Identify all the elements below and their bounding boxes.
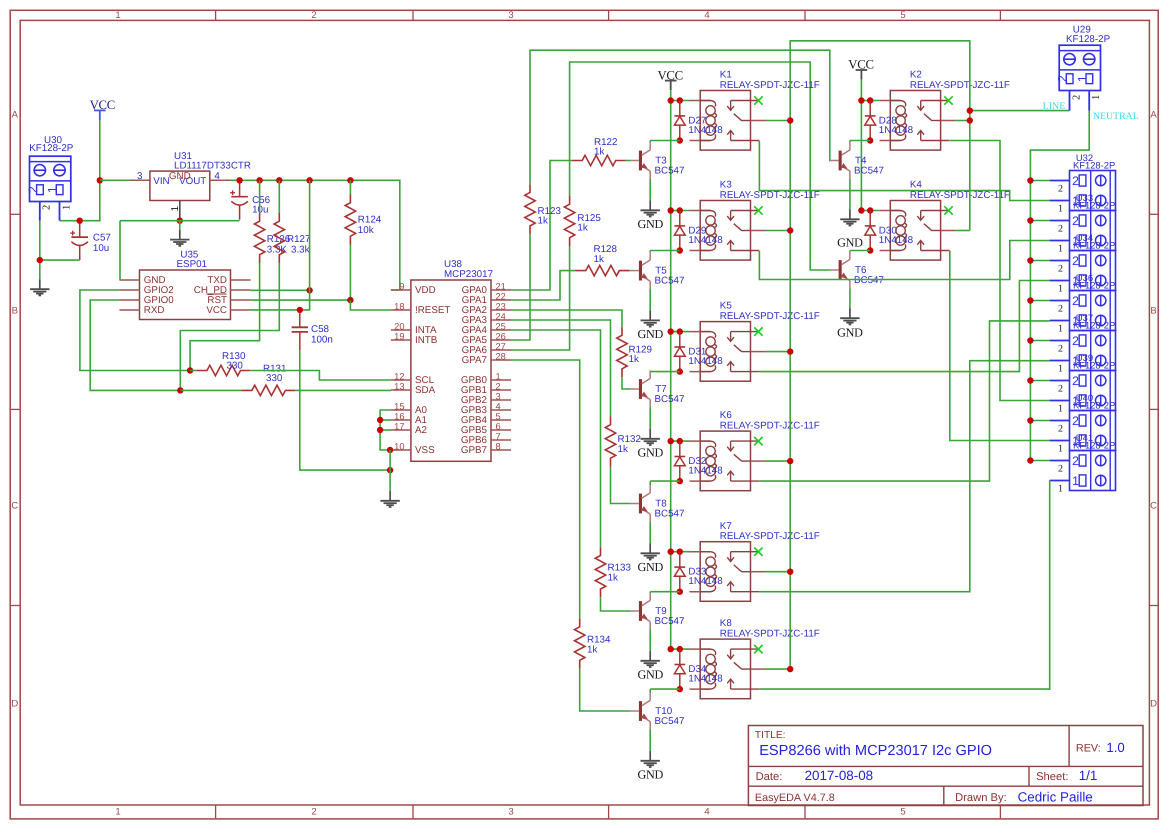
transistor T3 BC547 <box>631 142 685 179</box>
U38 pin 21 GPA0 <box>462 281 511 296</box>
svg-text:C57: C57 <box>93 232 111 243</box>
svg-text:1k: 1k <box>538 216 548 227</box>
svg-text:2: 2 <box>42 205 53 210</box>
wire common K1 <box>766 120 791 122</box>
node NEUTRAL U40 <box>1027 417 1033 423</box>
U39 pin 2 <box>1050 381 1070 395</box>
U31 pin 1 GND <box>170 201 181 221</box>
svg-text:25: 25 <box>496 321 506 331</box>
svg-text:KF128-2P: KF128-2P <box>1066 34 1111 45</box>
wire K4 output to U40.1 <box>950 251 1050 441</box>
svg-text:RELAY-SPDT-JZC-11F: RELAY-SPDT-JZC-11F <box>720 190 820 201</box>
no-connect X K3 <box>754 206 762 214</box>
node diode bottom K2 <box>867 137 873 143</box>
U38 pin 19 INTB <box>391 331 438 346</box>
U33 pin 2 <box>1050 221 1070 235</box>
node diode top K7 <box>677 549 683 555</box>
wire K7 output to U37.1 <box>759 361 1049 592</box>
svg-text:2: 2 <box>1072 214 1079 228</box>
svg-text:4: 4 <box>496 401 501 411</box>
svg-text:GND: GND <box>637 667 663 681</box>
node diode top K5 <box>677 328 683 334</box>
svg-text:VDD: VDD <box>415 285 436 296</box>
wire coil top K6 <box>671 440 690 442</box>
svg-text:24: 24 <box>496 311 506 321</box>
node NEUTRAL U36 <box>1027 297 1033 303</box>
svg-text:1: 1 <box>1058 483 1063 494</box>
ground T7 <box>637 429 663 459</box>
node diode bottom K7 <box>677 589 683 595</box>
U38 pin 20 INTA <box>391 321 437 336</box>
wire NEUTRAL U39 <box>1030 380 1049 382</box>
svg-text:2: 2 <box>1056 75 1070 82</box>
svg-text:2: 2 <box>1072 174 1079 188</box>
svg-text:19: 19 <box>394 331 404 341</box>
svg-text:1k: 1k <box>618 444 628 455</box>
wire collector T8 <box>650 480 680 482</box>
transistor T8 BC547 <box>631 485 685 522</box>
svg-text:2: 2 <box>1071 95 1082 100</box>
wire GPA2 net <box>511 310 622 327</box>
U38 pin 22 GPA1 <box>462 291 511 306</box>
svg-text:1k: 1k <box>608 572 618 583</box>
node diode top K1 <box>677 97 683 103</box>
svg-text:BC547: BC547 <box>655 508 685 519</box>
svg-text:GND: GND <box>169 171 191 182</box>
relay K2 RELAY-SPDT-JZC-11F <box>880 70 1010 150</box>
svg-text:1: 1 <box>1058 403 1063 414</box>
svg-text:GPB7: GPB7 <box>461 445 487 456</box>
svg-text:RXD: RXD <box>144 305 165 316</box>
wire C58 bottom to GND <box>300 350 390 470</box>
resistor R126 <box>254 213 290 263</box>
node RST-R124 <box>347 297 353 303</box>
node A1 <box>377 417 383 423</box>
power flag VCC (mid) <box>657 69 682 91</box>
svg-text:3.3k: 3.3k <box>291 245 310 256</box>
wire emitter down T6 <box>849 289 851 309</box>
wire emitter down T4 <box>849 179 851 210</box>
svg-text:RELAY-SPDT-JZC-11F: RELAY-SPDT-JZC-11F <box>720 420 820 431</box>
svg-text:1: 1 <box>1075 75 1089 82</box>
svg-text:1.0: 1.0 <box>1106 740 1124 755</box>
transistor T6 BC547 <box>830 252 884 289</box>
U38 pin 9 VDD <box>391 281 436 296</box>
U34 pin 2 <box>1050 261 1070 275</box>
node U31 GND <box>177 218 183 224</box>
U35 pin RXD <box>120 309 140 311</box>
svg-text:2017-08-08: 2017-08-08 <box>805 768 874 783</box>
node diode bottom K4 <box>867 247 873 253</box>
U38 pin 1 GPB0 <box>461 371 511 386</box>
wire R129 to T7 base <box>622 377 631 389</box>
wire collector up T8 <box>649 481 651 485</box>
wire GPA7 net <box>511 360 580 619</box>
capacitor C58 <box>292 310 333 350</box>
svg-text:R127: R127 <box>287 234 310 245</box>
U38 pin 25 GPA4 <box>462 321 511 336</box>
svg-text:1N4148: 1N4148 <box>688 674 723 685</box>
svg-text:RELAY-SPDT-JZC-11F: RELAY-SPDT-JZC-11F <box>910 190 1010 201</box>
svg-text:1N4148: 1N4148 <box>688 356 723 367</box>
diode D28 1N4148 <box>865 101 914 141</box>
svg-text:3: 3 <box>137 171 143 182</box>
U35 pin RST <box>231 299 251 301</box>
wire coil top K7 <box>671 551 690 553</box>
wire GND U30.2 down <box>39 221 41 280</box>
U38 pin 28 GPA7 <box>462 351 511 366</box>
U32 pin 2 <box>1050 181 1070 195</box>
connector U37 KF128-2P <box>1070 312 1116 371</box>
svg-text:1: 1 <box>496 371 501 381</box>
wire LINE bus <box>790 41 970 669</box>
wire emitter down T9 <box>649 630 651 652</box>
U30 pin 2 <box>40 202 53 221</box>
svg-text:RELAY-SPDT-JZC-11F: RELAY-SPDT-JZC-11F <box>720 80 820 91</box>
resistor R124 <box>345 195 382 245</box>
svg-text:1: 1 <box>170 206 181 211</box>
wire RST jog to MCP <box>350 300 391 310</box>
svg-text:KF128-2P: KF128-2P <box>1073 440 1115 451</box>
svg-text:KF128-2P: KF128-2P <box>1073 320 1115 331</box>
svg-text:1N4148: 1N4148 <box>688 576 723 587</box>
wire R126 top <box>259 180 261 213</box>
node diode top K8 <box>677 646 683 652</box>
no-connect X K6 <box>754 437 762 445</box>
ground T8 <box>637 544 663 574</box>
U36 pin 2 <box>1050 301 1070 315</box>
node R131 left <box>177 387 183 393</box>
U38 pin 26 GPA5 <box>462 331 511 346</box>
wire R133 to T9 base <box>601 597 631 611</box>
U38 pin 13 SDA <box>391 381 436 396</box>
U38 pin 4 GPB3 <box>461 401 511 416</box>
svg-text:2: 2 <box>1072 414 1079 428</box>
svg-text:2: 2 <box>1058 463 1063 474</box>
wire NEUTRAL U41 <box>1030 460 1049 462</box>
wire collector T6 <box>850 250 870 252</box>
node CH_PD <box>306 287 312 293</box>
wire ESP GPIO0 loop <box>90 300 180 390</box>
node diode bottom K6 <box>677 478 683 484</box>
svg-text:BC547: BC547 <box>655 616 685 627</box>
no-connect X K7 <box>754 548 762 556</box>
svg-text:BC547: BC547 <box>655 165 685 176</box>
svg-text:13: 13 <box>394 381 404 391</box>
svg-text:A2: A2 <box>415 425 427 436</box>
svg-text:1/1: 1/1 <box>1079 768 1098 783</box>
wire VCC to U31 VIN <box>100 179 130 181</box>
transistor T4 BC547 <box>830 142 884 179</box>
svg-text:2: 2 <box>1072 374 1079 388</box>
node VCC K2 <box>858 97 864 103</box>
node LINE K6 <box>787 458 793 464</box>
svg-text:1: 1 <box>115 806 120 817</box>
svg-text:10u: 10u <box>93 243 109 254</box>
svg-text:KF128-2P: KF128-2P <box>1073 360 1115 371</box>
node LINE K3 <box>787 227 793 233</box>
wire VOUT rail <box>230 180 400 290</box>
power flag VCC (left) <box>90 98 115 120</box>
svg-text:B: B <box>1150 306 1156 317</box>
svg-text:28: 28 <box>496 351 506 361</box>
svg-text:3.3K: 3.3K <box>267 245 288 256</box>
U35 pin GND <box>120 279 140 281</box>
wire R131 left lead <box>180 389 241 391</box>
wire GPA4 net <box>511 330 601 547</box>
U35 pin CH_PD <box>231 289 251 291</box>
U38 pin 5 GPB4 <box>461 411 511 426</box>
svg-text:10: 10 <box>394 441 404 451</box>
wire VCC vertical to U30.1 <box>60 120 100 221</box>
node LINE K2 <box>967 117 973 123</box>
node VCC K3 <box>668 207 674 213</box>
relay K7 RELAY-SPDT-JZC-11F <box>690 521 820 601</box>
U35 pin TXD <box>231 279 251 281</box>
wire VCC rail mid <box>670 90 672 649</box>
node R130 left <box>187 367 193 373</box>
U29 pin 2 <box>1070 91 1083 111</box>
svg-text:TITLE:: TITLE: <box>755 730 786 741</box>
diode D30 1N4148 <box>865 211 914 251</box>
U32 pin 1 <box>1050 201 1070 215</box>
U35 pin GPIO0 <box>120 299 140 301</box>
wire common K7 <box>766 571 791 573</box>
svg-text:C: C <box>1150 501 1157 512</box>
diode D34 1N4148 <box>674 649 723 689</box>
ground T4 <box>837 210 863 250</box>
wire A0 chain <box>380 410 391 450</box>
svg-text:D: D <box>11 699 18 710</box>
connector U36 KF128-2P <box>1070 272 1116 331</box>
U29 pin 1 <box>1089 91 1102 111</box>
module U35 ESP01 <box>140 250 231 320</box>
relay K6 RELAY-SPDT-JZC-11F <box>690 410 820 490</box>
svg-text:GND: GND <box>637 767 663 781</box>
node LINE K1 <box>787 117 793 123</box>
svg-text:GND: GND <box>637 445 663 459</box>
node C58 top <box>297 307 303 313</box>
wire R128 to T5 base <box>629 270 631 272</box>
wire common K5 <box>766 351 791 353</box>
node NEUTRAL U33 <box>1027 217 1033 223</box>
svg-text:1: 1 <box>115 10 120 21</box>
svg-text:2: 2 <box>26 186 40 193</box>
wire K2 output to U39.1 <box>950 141 1050 401</box>
svg-text:2: 2 <box>1072 294 1079 308</box>
U31 pin 3 VIN <box>129 171 150 182</box>
wire ESP GPIO2 loop <box>80 290 190 371</box>
svg-text:SDA: SDA <box>415 385 436 396</box>
svg-text:1k: 1k <box>577 223 587 234</box>
node VCC K6 <box>668 438 674 444</box>
U38 pin 24 GPA3 <box>462 311 511 326</box>
wire common K8 <box>766 668 791 670</box>
svg-text:GND: GND <box>637 327 663 341</box>
U35 pin VCC <box>231 309 251 311</box>
connector U40 KF128-2P <box>1070 392 1116 451</box>
node diode top K2 <box>867 97 873 103</box>
wire collector T7 <box>650 371 680 373</box>
svg-text:1: 1 <box>1058 243 1063 254</box>
wire ESP CH_PD <box>251 289 310 291</box>
wire collector up T3 <box>649 141 651 143</box>
svg-text:GND: GND <box>637 217 663 231</box>
U35 pin GPIO2 <box>120 289 140 291</box>
svg-text:6: 6 <box>496 421 501 431</box>
diode D29 1N4148 <box>674 211 723 251</box>
svg-text:23: 23 <box>496 301 506 311</box>
wire coil top K8 <box>671 648 690 650</box>
connector U33 KF128-2P <box>1070 192 1116 251</box>
svg-text:2: 2 <box>1058 263 1063 274</box>
svg-text:REV:: REV: <box>1076 742 1101 754</box>
U38 pin 17 A2 <box>391 421 427 436</box>
svg-text:1N4148: 1N4148 <box>879 235 914 246</box>
node VSS <box>387 447 393 453</box>
U38 pin 8 GPB7 <box>461 441 511 456</box>
U38 pin 6 GPB5 <box>461 421 511 436</box>
wire coil top K3 <box>671 210 690 212</box>
wire coil top K1 <box>671 100 690 102</box>
node NEUTRAL U37 <box>1027 337 1033 343</box>
wire emitter down T5 <box>649 289 651 311</box>
svg-text:1k: 1k <box>594 147 604 158</box>
svg-text:2: 2 <box>1058 423 1063 434</box>
diode D33 1N4148 <box>674 552 723 592</box>
wire VSS to ground <box>389 450 391 491</box>
svg-text:4: 4 <box>704 10 709 21</box>
diode D32 1N4148 <box>674 441 723 481</box>
relay K8 RELAY-SPDT-JZC-11F <box>690 618 820 698</box>
connector U32 KF128-2P <box>1070 152 1116 211</box>
wire NEUTRAL U33 <box>1030 220 1049 222</box>
svg-text:LINE: LINE <box>1043 101 1066 112</box>
wire GPA3 net <box>511 320 611 417</box>
wire collector up T9 <box>649 591 651 594</box>
node LINE K7 <box>787 569 793 575</box>
wire C57 bottom to U30.2 <box>40 259 80 261</box>
svg-text:8: 8 <box>496 441 501 451</box>
wire emitter down T8 <box>649 522 651 544</box>
node VCC K5 <box>668 328 674 334</box>
svg-text:3: 3 <box>508 806 513 817</box>
svg-text:1: 1 <box>46 186 60 193</box>
svg-text:2: 2 <box>1058 303 1063 314</box>
svg-text:BC547: BC547 <box>655 394 685 405</box>
wire GND stub down <box>179 221 181 230</box>
svg-text:4: 4 <box>704 806 709 817</box>
U34 pin 1 <box>1050 281 1070 295</box>
wire common K4 <box>956 230 970 232</box>
ground T5 <box>637 311 663 341</box>
svg-text:BC547: BC547 <box>854 165 884 176</box>
svg-text:MCP23017: MCP23017 <box>444 269 493 280</box>
svg-text:KF128-2P: KF128-2P <box>1073 200 1115 211</box>
node NEUTRAL U34 <box>1027 257 1033 263</box>
svg-text:Drawn By:: Drawn By: <box>955 792 1007 804</box>
wire coil top K2 <box>861 100 879 102</box>
wire R131 to SDA <box>295 389 391 391</box>
svg-text:GPA7: GPA7 <box>462 355 487 366</box>
regulator U31 LD1117DT33CTR <box>150 151 251 200</box>
wire collector up T6 <box>849 251 851 252</box>
svg-text:EasyEDA V4.7.8: EasyEDA V4.7.8 <box>755 792 835 804</box>
wire K6 output to U36.1 <box>759 321 1049 481</box>
svg-text:330: 330 <box>266 373 283 384</box>
wire ESP GND net <box>119 221 122 280</box>
wire A1 <box>380 419 391 421</box>
node diode bottom K1 <box>677 137 683 143</box>
wire NEUTRAL U36 <box>1030 300 1049 302</box>
resistor R132 <box>605 417 641 467</box>
svg-text:2: 2 <box>1072 334 1079 348</box>
svg-text:BC547: BC547 <box>655 275 685 286</box>
wire collector T3 <box>650 140 680 142</box>
wire GPA6 net <box>511 246 570 350</box>
wire R124 top <box>349 180 351 194</box>
U37 pin 1 <box>1050 361 1070 375</box>
wire GPA1 net <box>511 271 575 300</box>
no-connect X K2 <box>944 96 952 104</box>
wire common K3 <box>766 230 791 232</box>
resistor R130 <box>197 351 251 376</box>
ground U31 <box>179 230 181 240</box>
wire NEUTRAL from U29.1 <box>1030 111 1089 461</box>
wire collector up T7 <box>649 371 651 372</box>
ground T9 <box>637 651 663 681</box>
IC U38 MCP23017 <box>411 259 493 461</box>
svg-text:GND: GND <box>837 326 863 340</box>
svg-text:5: 5 <box>900 806 905 817</box>
wire R127 top <box>278 180 280 213</box>
wire GND rail <box>120 220 240 222</box>
node diode top K6 <box>677 438 683 444</box>
U38 pin 2 GPB1 <box>461 381 511 396</box>
svg-text:27: 27 <box>496 341 506 351</box>
wire collector up T4 <box>849 141 851 143</box>
transistor T9 BC547 <box>631 593 685 630</box>
ground T3 <box>637 201 663 231</box>
capacitor C57 <box>70 221 111 260</box>
wire emitter down T7 <box>649 408 651 430</box>
svg-text:KF128-2P: KF128-2P <box>1073 160 1115 171</box>
svg-text:R124: R124 <box>358 215 382 226</box>
wire R124 bottom to RST net <box>349 245 351 301</box>
svg-text:2: 2 <box>311 10 316 21</box>
wire SCL pullup feed <box>190 263 260 371</box>
node VCC K4 <box>858 207 864 213</box>
svg-text:KF128-2P: KF128-2P <box>29 143 74 154</box>
svg-text:16: 16 <box>394 411 404 421</box>
wire collector up T5 <box>649 251 651 253</box>
U41 pin 2 <box>1050 461 1070 475</box>
ground T10 <box>637 751 663 781</box>
no-connect X K1 <box>754 96 762 104</box>
wire ESP RST to MCP !RESET <box>251 299 351 301</box>
resistor R123 <box>525 184 562 234</box>
svg-text:100n: 100n <box>311 335 333 346</box>
U38 pin 15 A0 <box>391 401 428 416</box>
U38 pin 23 GPA2 <box>462 301 511 316</box>
resistor R129 <box>617 327 652 377</box>
node VCC K8 <box>668 646 674 652</box>
resistor R122 <box>572 137 626 166</box>
node C57 top <box>77 218 83 224</box>
wire R132 to T8 base <box>611 467 631 504</box>
wire GPA0 net <box>511 161 572 291</box>
node NEUTRAL U39 <box>1027 377 1033 383</box>
